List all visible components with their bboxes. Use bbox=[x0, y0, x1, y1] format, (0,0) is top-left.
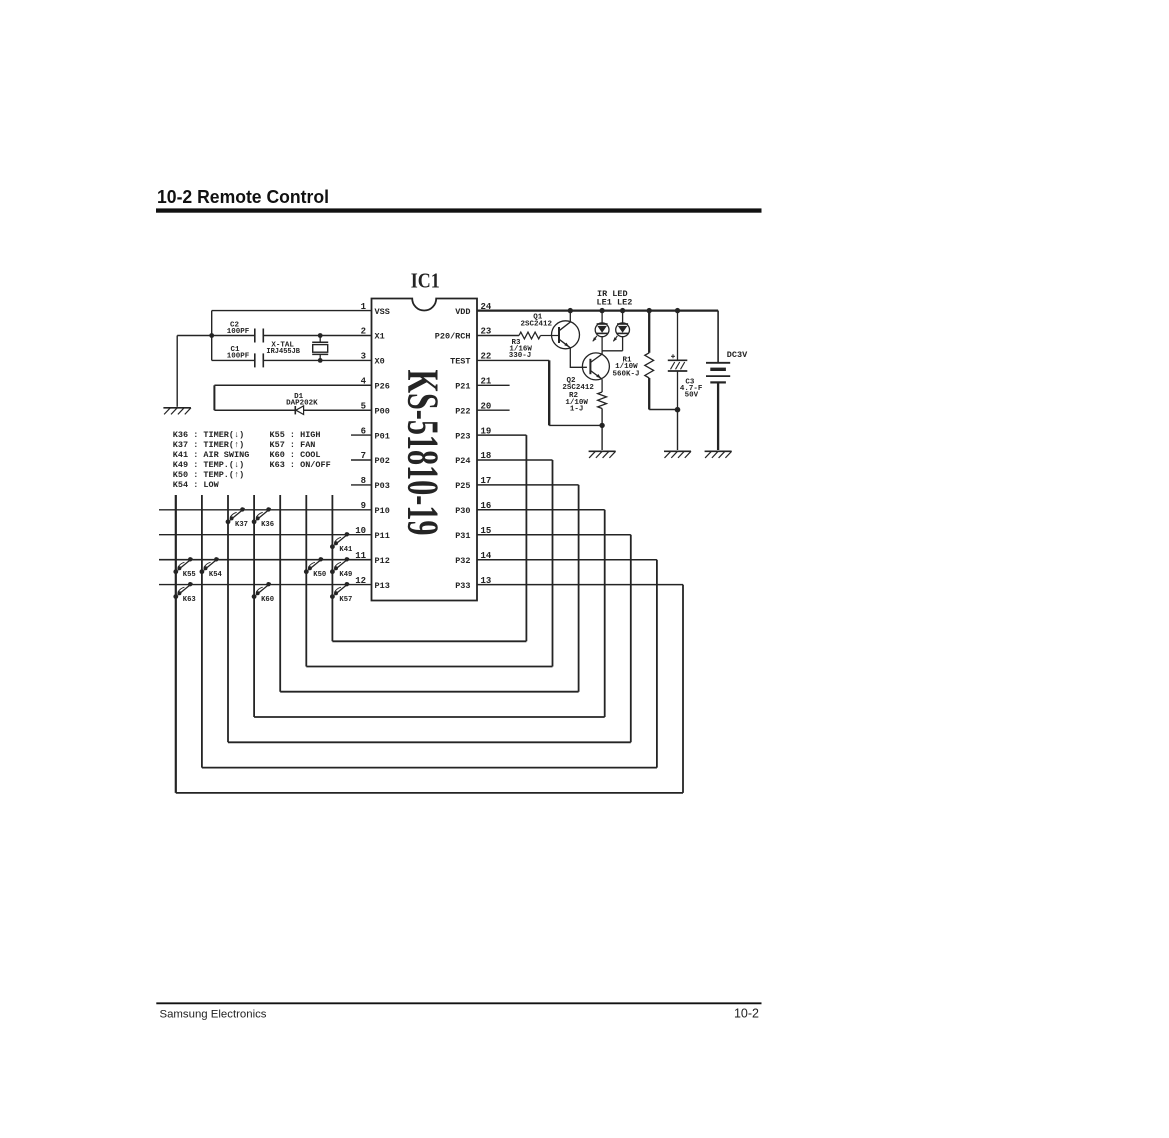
svg-text:P25: P25 bbox=[455, 481, 470, 491]
svg-text:P01: P01 bbox=[375, 431, 390, 441]
svg-text:2SC2412: 2SC2412 bbox=[562, 384, 594, 392]
svg-text:K57: K57 bbox=[339, 596, 352, 604]
svg-text:P03: P03 bbox=[375, 481, 390, 491]
svg-text:330-J: 330-J bbox=[509, 352, 532, 360]
svg-text:K36 : TIMER(↓): K36 : TIMER(↓) bbox=[173, 430, 244, 440]
svg-text:VDD: VDD bbox=[455, 307, 470, 317]
svg-text:X1: X1 bbox=[375, 332, 385, 342]
svg-text:DAP202K: DAP202K bbox=[286, 399, 318, 407]
svg-text:1-J: 1-J bbox=[570, 406, 584, 414]
svg-text:P26: P26 bbox=[375, 382, 390, 392]
svg-text:IRJ455JB: IRJ455JB bbox=[266, 348, 300, 356]
svg-text:K57 : FAN: K57 : FAN bbox=[270, 440, 316, 450]
svg-text:TEST: TEST bbox=[450, 357, 470, 367]
svg-text:K41 : AIR SWING: K41 : AIR SWING bbox=[173, 450, 250, 460]
svg-text:K54: K54 bbox=[209, 571, 223, 579]
svg-text:K63: K63 bbox=[183, 596, 196, 604]
svg-text:KS-51810-19: KS-51810-19 bbox=[399, 370, 448, 536]
svg-text:LE2: LE2 bbox=[617, 297, 632, 307]
svg-text:P23: P23 bbox=[455, 431, 470, 441]
svg-text:10-2 Remote Control: 10-2 Remote Control bbox=[157, 186, 329, 207]
svg-text:P10: P10 bbox=[375, 506, 390, 516]
svg-text:P00: P00 bbox=[375, 406, 390, 416]
svg-text:K36: K36 bbox=[261, 521, 274, 529]
svg-text:P13: P13 bbox=[375, 581, 390, 591]
svg-text:LE1: LE1 bbox=[597, 297, 612, 307]
svg-text:P32: P32 bbox=[455, 556, 470, 566]
svg-text:K50 : TEMP.(↑): K50 : TEMP.(↑) bbox=[173, 470, 244, 480]
svg-text:Samsung Electronics: Samsung Electronics bbox=[160, 1009, 267, 1021]
svg-text:50V: 50V bbox=[685, 391, 699, 399]
svg-text:K49 : TEMP.(↓): K49 : TEMP.(↓) bbox=[173, 460, 244, 470]
svg-text:K60: K60 bbox=[261, 596, 274, 604]
svg-text:X0: X0 bbox=[375, 357, 385, 367]
svg-text:DC3V: DC3V bbox=[727, 350, 748, 360]
svg-text:K49: K49 bbox=[339, 571, 352, 579]
svg-text:P11: P11 bbox=[375, 531, 390, 541]
svg-text:10-2: 10-2 bbox=[734, 1007, 759, 1021]
svg-text:P21: P21 bbox=[455, 382, 470, 392]
svg-text:K55: K55 bbox=[183, 571, 196, 579]
svg-text:P24: P24 bbox=[455, 456, 470, 466]
svg-text:2SC2412: 2SC2412 bbox=[521, 320, 553, 328]
svg-text:560K-J: 560K-J bbox=[612, 370, 639, 378]
svg-text:P22: P22 bbox=[455, 406, 470, 416]
svg-text:K37 : TIMER(↑): K37 : TIMER(↑) bbox=[173, 440, 244, 450]
svg-text:100PF: 100PF bbox=[227, 352, 250, 360]
svg-text:P12: P12 bbox=[375, 556, 390, 566]
svg-text:K41: K41 bbox=[339, 546, 353, 554]
svg-text:P31: P31 bbox=[455, 531, 470, 541]
svg-text:P02: P02 bbox=[375, 456, 390, 466]
svg-text:100PF: 100PF bbox=[227, 328, 250, 336]
svg-text:K37: K37 bbox=[235, 521, 248, 529]
svg-text:P20/RCH: P20/RCH bbox=[435, 332, 471, 342]
svg-text:IC1: IC1 bbox=[411, 269, 440, 293]
svg-text:VSS: VSS bbox=[375, 307, 390, 317]
svg-text:K60 : COOL: K60 : COOL bbox=[270, 450, 321, 460]
svg-text:P30: P30 bbox=[455, 506, 470, 516]
svg-text:K50: K50 bbox=[313, 571, 326, 579]
svg-text:K63 : ON/OFF: K63 : ON/OFF bbox=[270, 460, 331, 470]
svg-text:K55 : HIGH: K55 : HIGH bbox=[270, 430, 321, 440]
svg-text:P33: P33 bbox=[455, 581, 470, 591]
svg-text:K54 : LOW: K54 : LOW bbox=[173, 480, 220, 490]
